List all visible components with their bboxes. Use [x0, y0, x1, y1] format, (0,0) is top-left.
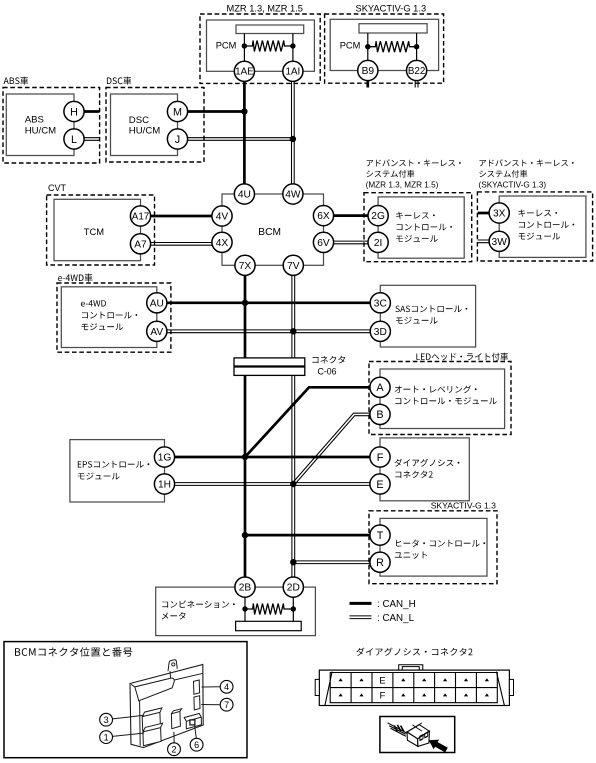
- svg-text:3W: 3W: [492, 237, 508, 248]
- junction dot PCM (SKYACTIV) right: [414, 44, 419, 49]
- terminal F: [370, 447, 390, 467]
- keyless control module (SKYACTIV) label: [518, 209, 557, 216]
- PCM (MZR) internal lead 1AI: [292, 34, 294, 62]
- svg-text:F: F: [379, 691, 385, 702]
- svg-text:HU/CM: HU/CM: [25, 125, 56, 136]
- junction dot CAN_L at R line: [290, 559, 296, 565]
- keyless control module (SKYACTIV) body: [499, 196, 586, 257]
- BCM module connector 2 slab: [171, 709, 181, 729]
- wire CAN_L branch to R: [293, 563, 380, 565]
- wire CAN_H A17 to 4V: [141, 215, 223, 218]
- TCM body: [54, 199, 141, 260]
- wire CAN_H main vertical 7X to 2B: [244, 265, 247, 587]
- connector C-06 splice bar middle line: [234, 365, 305, 367]
- terminal M: [167, 101, 187, 121]
- LED variant dashed box: [369, 362, 511, 435]
- svg-text:B9: B9: [362, 66, 375, 77]
- heater variant dashed box: [369, 511, 497, 584]
- svg-text:3X: 3X: [493, 209, 506, 220]
- svg-text:2: 2: [171, 744, 176, 754]
- PCM (SKYACTIV) internal lead B22: [416, 33, 418, 60]
- label diagnosis connector 2: [356, 648, 472, 656]
- ABS HU/CM body: [6, 94, 74, 156]
- label LED headlight vehicles: [416, 353, 508, 361]
- svg-text:T: T: [377, 530, 384, 542]
- svg-text:7X: 7X: [239, 261, 252, 272]
- BCM module connector 4 socket: [194, 680, 200, 694]
- wire CAN_H AU to 3C: [157, 301, 380, 304]
- heater control unit body: [380, 518, 487, 576]
- PCM (MZR) internal bus bar: [236, 25, 304, 34]
- terminal R: [370, 552, 390, 572]
- callout circle 4: [220, 680, 233, 693]
- diagnosis connector right lug: [509, 679, 513, 695]
- BCM connector location panel: [4, 642, 247, 758]
- wire CAN_L main vertical 1AI to 4W: [291, 71, 293, 194]
- PCM (SKYACTIV) internal lead B9: [367, 33, 369, 60]
- terminal 2G: [368, 206, 388, 226]
- svg-text:(MZR 1.3, MZR 1.5): (MZR 1.3, MZR 1.5): [366, 181, 439, 190]
- CVT variant dashed box: [47, 195, 155, 265]
- terminal 4W: [283, 184, 303, 204]
- svg-text:4U: 4U: [238, 190, 251, 201]
- terminal 2B: [235, 577, 255, 597]
- diagnosis connector left bevel line: [325, 672, 332, 706]
- PCM module (MZR) body: [207, 20, 315, 71]
- callout circle 6: [190, 738, 203, 751]
- svg-text:BCM: BCM: [258, 227, 281, 238]
- svg-text:TCM: TCM: [84, 226, 104, 237]
- connector plug body: [407, 725, 429, 739]
- svg-text:: CAN_L: : CAN_L: [377, 613, 415, 624]
- connector plug terminal holes: [420, 732, 428, 741]
- connector C-06 splice bar backing: [234, 358, 305, 376]
- BCM connector location title: [15, 647, 132, 656]
- SAS control module label: [395, 305, 467, 312]
- svg-text:4: 4: [224, 682, 229, 692]
- BCM module connector 3 slab: [142, 708, 162, 731]
- svg-text:ABS: ABS: [25, 115, 44, 126]
- svg-text:PCM: PCM: [340, 41, 361, 51]
- svg-text:7V: 7V: [287, 261, 300, 272]
- callout circle 3: [100, 713, 113, 726]
- svg-text:H: H: [70, 106, 78, 118]
- PCM module (SKYACTIV) dashed variant box: [325, 14, 444, 83]
- svg-text:(SKYACTIV-G 1.3): (SKYACTIV-G 1.3): [479, 181, 547, 190]
- svg-text:B22: B22: [408, 66, 425, 77]
- terminating resistor in combination meter: [245, 604, 293, 615]
- terminal 7X: [235, 255, 255, 275]
- connector plug wires: [388, 723, 408, 736]
- svg-text:SKYACTIV-G 1.3: SKYACTIV-G 1.3: [431, 501, 496, 511]
- svg-text:6X: 6X: [317, 211, 330, 222]
- svg-text:6: 6: [194, 740, 199, 750]
- PCM (MZR) internal lead 1AE: [243, 34, 245, 62]
- meter internal lead 2D: [292, 587, 294, 621]
- svg-text:2B: 2B: [239, 583, 252, 594]
- junction dot PCM (MZR) right: [290, 43, 295, 48]
- callout line 6: [195, 726, 197, 739]
- auto leveling control module label: [395, 385, 477, 393]
- terminal B22: [407, 60, 427, 80]
- label advanced keyless system (SKYACTIV): [480, 159, 574, 166]
- terminal 7V: [283, 255, 303, 275]
- junction dot meter right: [291, 606, 296, 611]
- combination meter body: [156, 587, 316, 636]
- BCM module connector 1 slab: [143, 723, 163, 746]
- BCM body: [222, 194, 324, 265]
- diagnosis connector pin grid: [330, 673, 497, 703]
- terminal 1H: [154, 474, 174, 494]
- svg-text:AV: AV: [150, 327, 163, 338]
- terminal 3X: [489, 203, 509, 223]
- svg-text:6V: 6V: [317, 238, 330, 249]
- svg-text:4V: 4V: [216, 212, 229, 223]
- terminal B: [370, 404, 390, 424]
- wire CAN_H stub below terminal H: [74, 110, 99, 113]
- svg-text:1H: 1H: [158, 480, 171, 491]
- diagnosis connector right bevel line: [496, 672, 504, 706]
- callout circle 7: [220, 698, 233, 711]
- svg-text:CVT: CVT: [48, 183, 67, 193]
- wire CAN_L AV to 3D: [157, 332, 380, 334]
- svg-text:B: B: [376, 409, 383, 421]
- junction dot PCM (SKYACTIV) left: [365, 44, 370, 49]
- terminal 6X: [313, 206, 333, 226]
- ABS variant dashed box: [3, 88, 100, 164]
- svg-text:1G: 1G: [158, 453, 172, 464]
- wire CAN_H EPS 1G to F: [165, 456, 381, 459]
- SAS control module body: [380, 285, 475, 347]
- terminal L: [64, 129, 84, 149]
- svg-text:F: F: [377, 452, 384, 464]
- junction dot CAN_L at DSC J: [290, 136, 296, 142]
- terminating resistor in PCM (SKYACTIV): [368, 41, 417, 52]
- heater control unit label: [396, 540, 485, 547]
- wire CAN_L A7 to 4X: [141, 244, 223, 246]
- svg-text:: CAN_H: : CAN_H: [377, 599, 416, 610]
- BCM module drawing body: [130, 665, 203, 748]
- callout line 7: [201, 704, 220, 706]
- label ABS-equipped vehicles: [4, 77, 29, 85]
- BCM module connector 7 socket: [194, 696, 200, 710]
- BCM module connector 6 bracket: [184, 714, 201, 729]
- svg-text:2I: 2I: [374, 238, 383, 249]
- DSC variant dashed box: [106, 88, 204, 163]
- terminal 2D: [283, 577, 303, 597]
- wire CAN_H branch to A (diagonal): [245, 387, 380, 457]
- svg-text:1AE: 1AE: [235, 67, 254, 78]
- callout circle 2: [168, 743, 181, 756]
- e-4WD control module body: [61, 287, 157, 348]
- terminal 1AI: [283, 61, 303, 81]
- svg-text:J: J: [175, 134, 180, 146]
- terminal AU: [147, 293, 167, 313]
- svg-text:4X: 4X: [216, 238, 229, 249]
- svg-text:4W: 4W: [285, 190, 301, 201]
- PCM module (MZR) dashed variant box: [200, 14, 320, 83]
- auto leveling control module body: [380, 369, 505, 429]
- DSC HU/CM body: [111, 94, 178, 156]
- junction dot PCM (MZR) left: [242, 43, 247, 48]
- wire CAN_L EPS 1H to E: [165, 484, 381, 486]
- svg-text:AU: AU: [150, 298, 164, 309]
- svg-text:E: E: [379, 675, 385, 686]
- wire CAN_H branch to T: [245, 534, 380, 537]
- wire CAN_L stub to 3W: [478, 242, 499, 244]
- terminal 6V: [313, 232, 333, 252]
- terminal B9: [358, 60, 378, 80]
- terminal AV: [147, 321, 167, 341]
- terminal J: [167, 129, 187, 149]
- svg-text:3D: 3D: [374, 327, 387, 338]
- wire CAN_L DSC J to bus: [178, 139, 293, 141]
- wire CAN_H DSC M to bus: [178, 110, 245, 113]
- svg-text:3C: 3C: [374, 298, 387, 309]
- svg-text:M: M: [173, 106, 182, 118]
- junction dot CAN_L at E line: [290, 481, 296, 487]
- keyless (SKYACTIV) dashed variant box: [477, 192, 592, 261]
- e-4WD variant dashed box: [57, 283, 171, 352]
- legend CAN_L sample line: [350, 618, 372, 620]
- keyless (MZR) dashed variant box: [364, 193, 472, 262]
- terminal E: [370, 474, 390, 494]
- diagnosis connector pin marks and E F labels: [339, 678, 490, 696]
- junction dot CAN_H at DSC M: [241, 108, 247, 114]
- wire CAN_L stub below B22: [414, 80, 416, 88]
- BCM module side face edge: [139, 702, 142, 746]
- terminal 4V: [212, 206, 232, 226]
- terminal A7: [130, 234, 150, 254]
- svg-text:7: 7: [224, 700, 229, 710]
- terminal 1AE: [234, 61, 254, 81]
- svg-text:A: A: [376, 382, 384, 394]
- diagnosis connector left lug: [315, 679, 319, 695]
- PCM module (SKYACTIV) body: [330, 19, 438, 70]
- svg-text:2G: 2G: [371, 211, 385, 222]
- keyless control module (MZR) label: [396, 212, 435, 219]
- terminal 3D: [370, 321, 390, 341]
- svg-text:MZR 1.3, MZR 1.5: MZR 1.3, MZR 1.5: [227, 4, 303, 14]
- meter internal lead 2B: [244, 587, 246, 621]
- callout line 1: [113, 733, 145, 736]
- svg-text:A7: A7: [134, 239, 147, 250]
- svg-text:C-06: C-06: [318, 367, 337, 377]
- svg-text:E: E: [376, 479, 383, 491]
- terminal 4U: [234, 184, 254, 204]
- terminal 3C: [370, 293, 390, 313]
- BCM module top flap: [131, 671, 203, 701]
- wire CAN_L branch to B (diagonal): [294, 416, 380, 485]
- terminal 1G: [154, 447, 174, 467]
- svg-text:SKYACTIV-G 1.3: SKYACTIV-G 1.3: [356, 4, 427, 14]
- terminal T: [370, 525, 390, 545]
- meter internal bus bar: [236, 621, 302, 630]
- wire CAN_H main vertical 1AE to 4U: [243, 71, 246, 194]
- diagnosis connector outer shell: [319, 670, 509, 705]
- terminating resistor in PCM (MZR): [244, 41, 293, 52]
- wire CAN_H 6X to 2G: [324, 214, 379, 217]
- label DSC-equipped vehicles: [107, 77, 131, 85]
- label e-4WD vehicles: [58, 274, 93, 282]
- connector inset box: [380, 717, 455, 753]
- junction dot CAN_H at AU/3C line: [242, 300, 248, 306]
- callout line 4: [202, 686, 221, 688]
- callout circle 1: [100, 731, 113, 744]
- wire CAN_L stub from terminal L: [74, 139, 99, 141]
- keyless control module (MZR) body: [378, 197, 464, 258]
- e-4WD control module label: [81, 300, 106, 306]
- wire CAN_L 6V to 2I: [324, 243, 379, 245]
- junction dot meter left: [242, 606, 247, 611]
- legend CAN_H sample line: [350, 602, 372, 605]
- terminal 2I: [368, 232, 388, 252]
- EPS control module body: [70, 440, 165, 502]
- junction dot CAN_L at AV/3D line: [290, 328, 296, 334]
- diagnosis connector 2 label: [395, 459, 460, 467]
- svg-text:R: R: [376, 557, 384, 569]
- svg-text:HU/CM: HU/CM: [129, 125, 160, 136]
- label advanced keyless system (MZR): [367, 159, 461, 166]
- svg-text:1AI: 1AI: [286, 67, 301, 78]
- wire CAN_L main vertical 7V to 2D: [291, 265, 293, 587]
- BCM module connector 6 nub: [190, 720, 195, 725]
- callout line 3: [113, 715, 144, 719]
- svg-text:PCM: PCM: [216, 41, 237, 51]
- diagnosis connector 2 body: [380, 438, 469, 501]
- svg-text:A17: A17: [132, 211, 149, 222]
- terminal A: [370, 377, 390, 397]
- svg-text:DSC: DSC: [129, 115, 149, 126]
- diagnosis connector top tab: [399, 665, 423, 670]
- wire CAN_H stub to 3X: [478, 212, 499, 215]
- terminal A17: [130, 206, 150, 226]
- terminal 3W: [489, 231, 509, 251]
- junction dot CAN_H at EPS/F line: [242, 454, 248, 460]
- BCM module mounting tab: [168, 660, 177, 671]
- connector inset arrow: [429, 740, 448, 753]
- callout line 2: [173, 732, 175, 743]
- PCM (SKYACTIV) internal bus bar: [359, 24, 427, 33]
- junction dot CAN_H at T line: [242, 532, 248, 538]
- svg-text:3: 3: [104, 715, 109, 725]
- terminal 4X: [212, 232, 232, 252]
- combination meter label: [162, 600, 235, 608]
- svg-text:2D: 2D: [287, 583, 300, 594]
- connector C-06 splice bar: [234, 358, 305, 376]
- terminal H: [64, 101, 84, 121]
- EPS control module label: [78, 461, 150, 468]
- label connector C-06: [312, 356, 345, 364]
- svg-text:1: 1: [104, 732, 109, 742]
- svg-text:L: L: [71, 134, 77, 146]
- wire CAN_H stub below B9: [366, 80, 369, 88]
